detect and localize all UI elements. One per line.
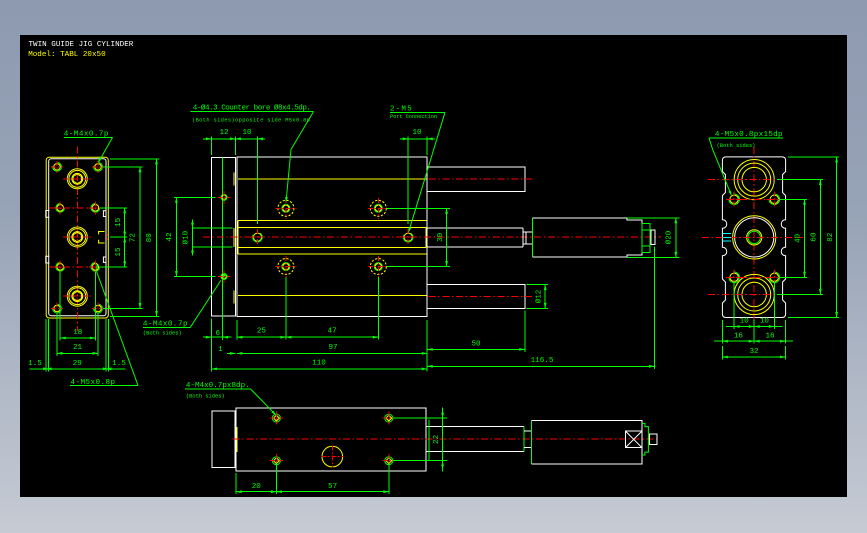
left view mid mounting hole	[89, 201, 102, 214]
dimension row 6 25 47	[203, 277, 378, 340]
svg-text:12: 12	[219, 129, 229, 137]
left view sensor rail clip (yellow C shape)	[99, 232, 105, 244]
front view counter bore hole	[368, 198, 389, 219]
svg-text:1.5: 1.5	[28, 360, 42, 368]
svg-text:1: 1	[218, 346, 223, 354]
svg-text:10: 10	[760, 318, 770, 326]
svg-text:Ø20: Ø20	[664, 230, 673, 244]
dimension 40	[779, 199, 807, 277]
bottom view M4 tapped hole	[270, 412, 283, 425]
label 4-phi4.3 counter bore with leader	[191, 103, 314, 202]
stopper cylinder assembly	[532, 218, 642, 257]
right view M5 tapped hole	[726, 191, 742, 207]
left view corner mounting hole	[51, 161, 63, 173]
piston rod	[427, 228, 532, 247]
svg-text:(Both sides): (Both sides)	[143, 330, 182, 336]
dimension 15 upper	[100, 208, 127, 267]
front view top guide rod hidden line yellow	[238, 178, 427, 180]
svg-text:21: 21	[73, 344, 83, 352]
left view corner mounting hole	[51, 303, 63, 315]
svg-text:47: 47	[328, 328, 337, 336]
label 4-M5x0.8p with leader	[70, 264, 138, 387]
dimension 60	[777, 180, 823, 295]
svg-text:16: 16	[734, 332, 744, 340]
front view port hole right	[401, 229, 415, 245]
front view main centerline	[203, 236, 661, 238]
svg-text:15: 15	[115, 247, 123, 257]
right view bottom dimension 10 10	[726, 282, 783, 344]
right view M5 row centerlines	[726, 199, 782, 277]
left view vertical centerline	[76, 147, 78, 332]
dimension 21	[57, 313, 98, 356]
bottom view M4 tapped hole	[270, 454, 283, 467]
svg-text:110: 110	[312, 360, 326, 368]
label 4-M5x0.8px15dp with leader	[709, 131, 783, 196]
svg-text:57: 57	[328, 483, 337, 491]
front view counter bore hole	[368, 256, 389, 277]
left view row centerlines horizontal	[49, 208, 105, 267]
left view mid mounting hole	[54, 201, 67, 214]
dimension 15 lower	[123, 237, 126, 243]
front view piston bore yellow box	[238, 221, 427, 254]
right view top guide bushing circles	[708, 160, 801, 200]
dimension phi10	[182, 220, 233, 256]
left view middle guide rod hex socket hole	[63, 227, 92, 247]
svg-text:10: 10	[412, 129, 422, 137]
svg-text:82: 82	[827, 232, 835, 242]
svg-text:42: 42	[166, 232, 174, 242]
bottom view M4 tapped hole	[382, 454, 395, 467]
right view bottom dimension 32	[722, 346, 785, 360]
dimension row 1 and 97	[218, 320, 427, 372]
svg-text:(Both sides): (Both sides)	[717, 143, 756, 149]
svg-text:80: 80	[146, 233, 154, 243]
right view vertical centerline	[753, 147, 755, 328]
bottom view center hole circle	[321, 446, 343, 468]
bottom view mounting plate	[212, 411, 235, 468]
bottom view piston rod	[426, 420, 532, 460]
front view rod thread ends in plate yellow	[233, 173, 235, 304]
left view mid mounting hole	[54, 260, 67, 273]
dimension phi20	[627, 218, 680, 258]
dimension 42	[166, 197, 216, 276]
bottom view nut (green)	[642, 424, 649, 456]
bottom view dimension 22	[393, 408, 447, 472]
dimension 110	[211, 319, 427, 372]
stopper nut (green)	[642, 223, 650, 252]
bottom view yellow bore line	[236, 427, 238, 452]
top dimension 10 right	[400, 129, 435, 224]
svg-text:6: 6	[216, 330, 221, 338]
dimension 72	[103, 167, 142, 309]
label 2-M5 port connection with leader	[390, 105, 445, 233]
front view hidden feature line at 6mm	[222, 158, 224, 340]
svg-text:116.5: 116.5	[531, 357, 554, 365]
front view bottom guide rod hidden line yellow	[238, 295, 427, 297]
dimension 82	[788, 157, 839, 318]
svg-text:15: 15	[115, 217, 123, 227]
svg-text:10: 10	[242, 129, 252, 137]
svg-text:72: 72	[130, 233, 138, 243]
left view bottom guide rod hex socket hole	[63, 286, 92, 306]
right view M5 tapped hole	[766, 269, 782, 285]
bottom guide rod	[427, 284, 533, 308]
svg-text:32: 32	[749, 348, 759, 356]
svg-text:25: 25	[257, 328, 267, 336]
front view port hole left	[251, 229, 265, 245]
left view corner mounting hole	[92, 303, 104, 315]
svg-text:60: 60	[811, 232, 819, 242]
label 4-M4x0.7px8dp with leader	[185, 382, 276, 415]
bottom view stopper cylinder	[532, 421, 642, 465]
left view cylinder body outline (yellow)	[46, 157, 108, 318]
right view bottom dimension 16 16	[714, 320, 793, 344]
left view mounting plate outline (white)	[49, 159, 106, 316]
right view M5 tapped hole	[766, 191, 782, 207]
svg-text:16: 16	[765, 332, 775, 340]
stopper end stub	[651, 230, 655, 245]
bottom view centerline	[233, 438, 661, 440]
svg-text:18: 18	[73, 329, 83, 337]
svg-text:2-M5: 2-M5	[390, 105, 413, 113]
dimension 116.5	[427, 247, 654, 369]
top guide rod	[427, 167, 533, 191]
svg-text:Port Connection: Port Connection	[390, 114, 437, 120]
svg-text:1.5: 1.5	[112, 360, 126, 368]
front view plate hole upper	[218, 191, 231, 204]
dimension 29 with 1.5 margins	[28, 319, 126, 371]
label 4-M4x0.7p with leader	[64, 130, 113, 163]
right view middle piston bore circles	[702, 216, 803, 259]
right view bottom guide bushing circles	[708, 274, 801, 314]
front view counter bore hole	[275, 198, 296, 219]
svg-text:Ø10: Ø10	[182, 230, 191, 244]
front view cylinder body outline	[237, 157, 427, 316]
left view mid mounting hole	[89, 260, 102, 273]
right view M5 tapped hole	[726, 269, 742, 285]
svg-text:4-Ø4.3 Counter bore Ø8x4.5dp.: 4-Ø4.3 Counter bore Ø8x4.5dp.	[193, 103, 311, 112]
label 4-M4x0.7p both sides with leader	[143, 273, 227, 336]
right view cyan section marks	[723, 234, 732, 242]
bottom view body outline	[236, 408, 426, 471]
svg-text:29: 29	[73, 360, 83, 368]
svg-text:40: 40	[795, 233, 803, 243]
dimension phi12	[527, 285, 549, 309]
bottom view end stub	[650, 434, 658, 445]
dimension 30	[387, 208, 451, 266]
bottom view dimensions 20 and 57	[236, 464, 389, 495]
right view body outline with notches	[722, 157, 785, 318]
svg-text:(Both sides)opposite side M5x0: (Both sides)opposite side M5x0.8p	[192, 117, 310, 123]
dimension 18	[60, 272, 95, 341]
left view red tick at right notch	[107, 234, 109, 241]
dimension 50	[427, 311, 525, 352]
svg-text:(Both sides): (Both sides)	[186, 394, 225, 400]
front view plate hole lower	[218, 270, 231, 283]
bottom view wrench flat X box	[626, 431, 642, 448]
svg-text:Model: TABL 20x50: Model: TABL 20x50	[28, 51, 106, 59]
svg-text:97: 97	[328, 344, 337, 352]
svg-text:Ø12: Ø12	[534, 289, 543, 303]
svg-text:20: 20	[252, 483, 262, 491]
left view plate right edge notches (white)	[103, 211, 106, 217]
svg-text:50: 50	[471, 341, 481, 349]
dimension 80	[110, 159, 159, 317]
bottom view M4 tapped hole	[382, 412, 395, 425]
top dimensions 12 and 10 left	[203, 129, 265, 224]
svg-text:TWIN GUIDE JIG CYLINDER: TWIN GUIDE JIG CYLINDER	[29, 41, 134, 49]
left view corner mounting hole	[92, 161, 104, 173]
svg-text:30: 30	[437, 232, 445, 242]
svg-text:10: 10	[740, 318, 750, 326]
left view top guide rod hex socket hole	[63, 169, 92, 189]
front view mounting plate	[211, 158, 235, 316]
svg-text:22: 22	[433, 434, 441, 444]
front view counter bore hole	[275, 256, 296, 277]
